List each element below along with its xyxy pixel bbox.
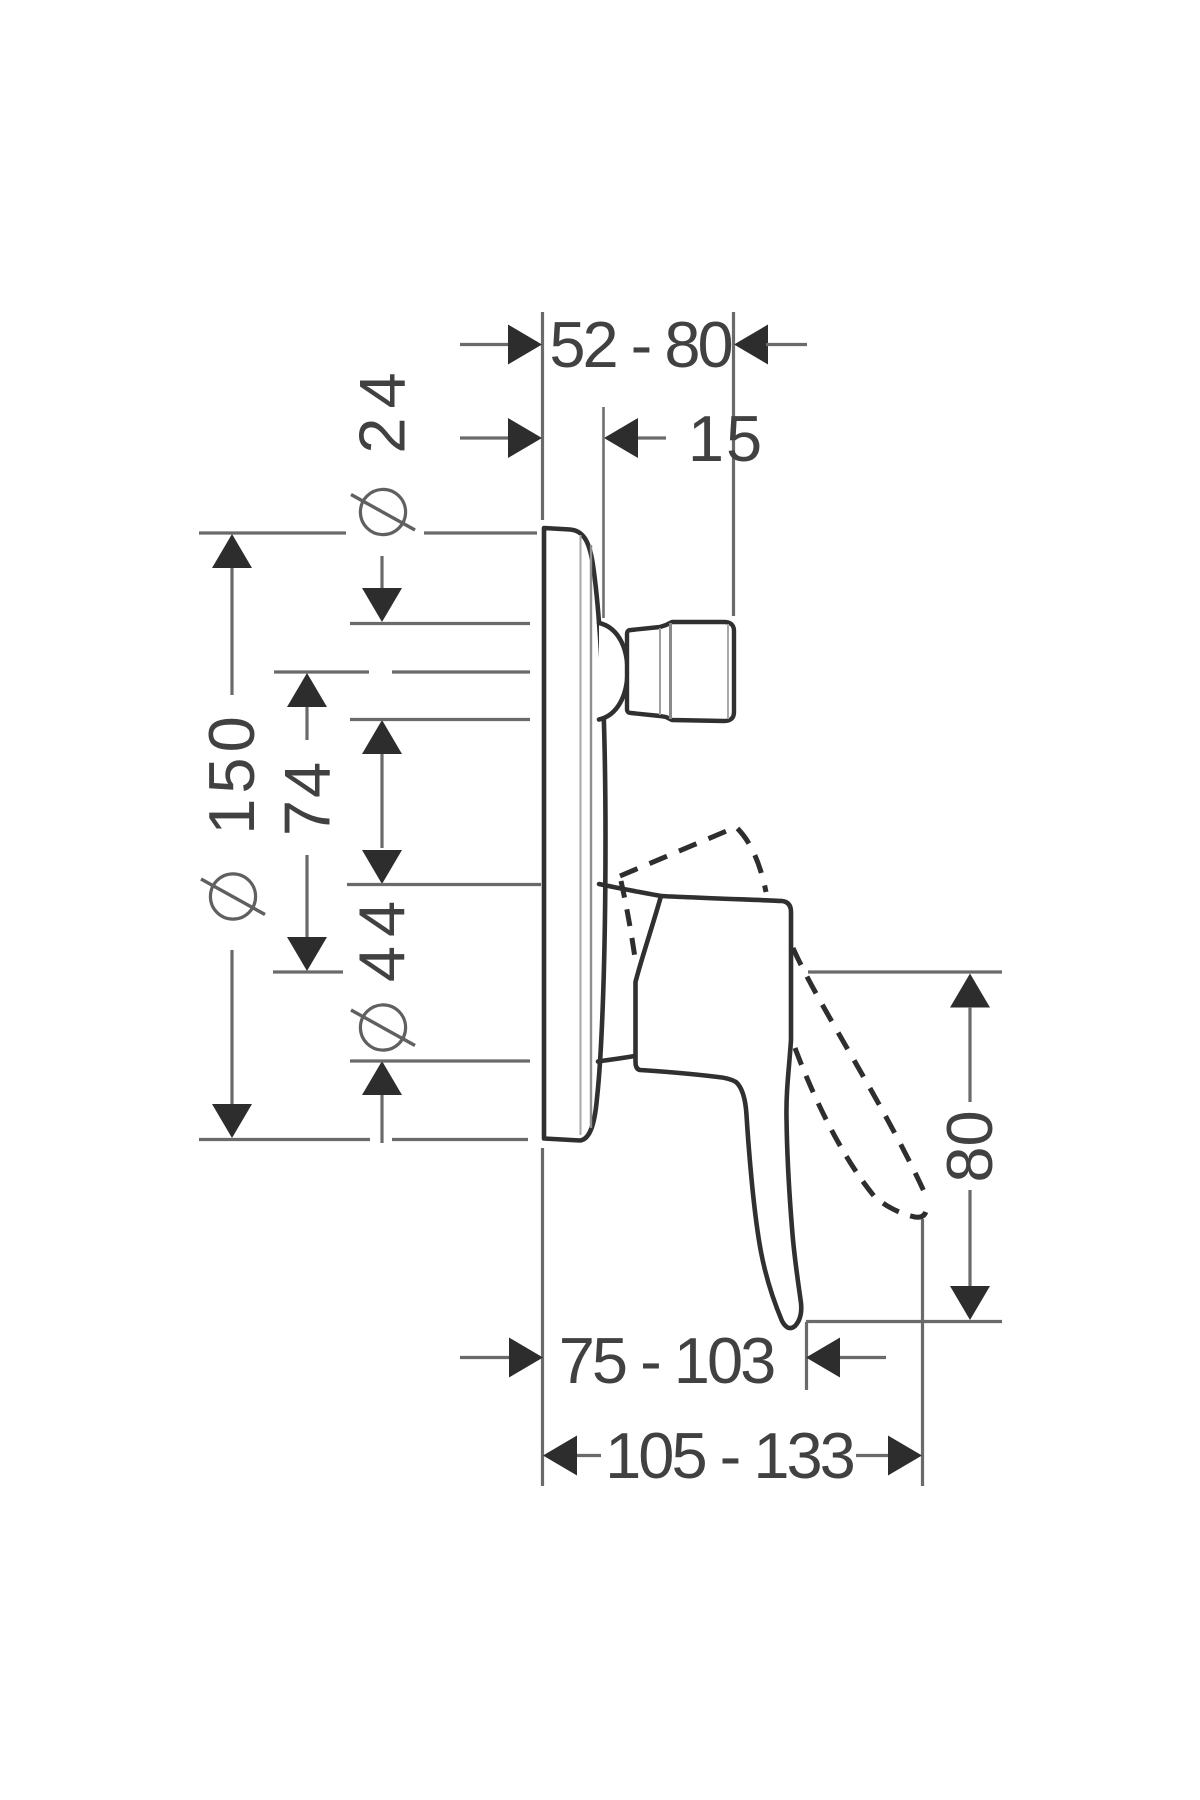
knob face line B [669, 623, 672, 719]
dimension d150 lower tail [230, 950, 233, 1105]
extension line knob centre left part [274, 670, 369, 673]
extension line solid handle tip [805, 1322, 808, 1390]
diameter symbol for 44 [351, 1005, 415, 1050]
svg-text:80: 80 [933, 1110, 1006, 1182]
dimension 80 upper tail [968, 1007, 971, 1102]
lever handle sleeve bottom edge [598, 1056, 635, 1062]
dimension d24 upper tail and arrow [380, 556, 383, 588]
arrow 52-80 right [734, 325, 768, 365]
dimension d150 top extension right part [424, 531, 537, 534]
arrow 52-80 left [508, 325, 542, 365]
dashed lever raised, inner sweep and tip hairpin [795, 1048, 927, 1217]
extension line sleeve top (d44) [347, 883, 541, 886]
arrow 80 top (up) [950, 974, 990, 1008]
extension line knob bottom [350, 718, 530, 721]
arrow d44 top (down) [362, 850, 402, 884]
dimension 80 lower tail [968, 1190, 971, 1287]
dashed lever raised, outer sweep to tip [793, 948, 927, 1198]
dimension line 75-103 right tail [840, 1356, 886, 1359]
dimension line 105-133 left segment [577, 1454, 601, 1457]
extension line dashed handle tip [921, 1219, 924, 1486]
extension line handle centre tick [273, 970, 343, 973]
arrow d24 bottom (up) [362, 720, 402, 754]
dimension line 15 left tail [460, 436, 508, 439]
dimension d44 lower tail [380, 1095, 383, 1143]
extension line knob top [350, 622, 530, 625]
arrow d24 top (down) [362, 588, 402, 622]
dashed lever in raised position, upper edge [620, 827, 766, 892]
extension line wall lower [541, 1148, 544, 1486]
svg-text:74: 74 [270, 760, 343, 836]
diameter symbol for 150 [201, 874, 265, 919]
dimension line 52-80 left tail [460, 343, 512, 346]
lever handle body with grip blade [636, 896, 802, 1328]
arrow 15 left [508, 418, 542, 458]
dimension d150 bottom extension right part [392, 1138, 528, 1141]
svg-text:44: 44 [345, 892, 418, 982]
arrow 105-133 right (points right) [888, 1436, 922, 1476]
dimension 74 lower tail [305, 855, 308, 937]
arrow d44 bottom (up) [362, 1061, 402, 1095]
arrow d150 bottom (down) [212, 1104, 252, 1138]
extension line sleeve bottom (d44) [350, 1059, 530, 1062]
escutcheon plate (round cover flange, side view) [544, 528, 606, 1141]
extension line knob centre right part [392, 670, 530, 673]
svg-text:24: 24 [345, 363, 418, 453]
diverter knob body [627, 622, 734, 721]
svg-text:52 - 80: 52 - 80 [549, 308, 731, 381]
dimension line 15 right tail [638, 436, 666, 439]
dimension d150 top extension left part [199, 531, 346, 534]
diameter symbol for 24 [351, 489, 415, 534]
extension line 80 top [808, 970, 1002, 973]
arrow d150 top (up) [212, 534, 252, 568]
escutcheon face highlight line 2 [590, 545, 592, 1128]
diverter knob bulge [599, 623, 628, 720]
arrow 105-133 left (points left) [543, 1436, 577, 1476]
dimension d150 upper tail [230, 568, 233, 695]
escutcheon face highlight line 1 [580, 535, 582, 1135]
arrow 75-103 right [806, 1338, 840, 1378]
dimension 74 bottom arrow (down) [287, 937, 327, 971]
dimension 74 top arrow (up) [287, 673, 327, 707]
extension line 15 right [602, 407, 605, 618]
knob face line A [659, 628, 661, 715]
dashed lever raised, inner edge stub [621, 881, 635, 958]
dimension d24-d44 shared tail [380, 754, 383, 848]
lever handle sleeve top edge [599, 884, 661, 896]
dimension 52-80 right extension line [732, 312, 735, 616]
arrow 15 right [604, 418, 638, 458]
svg-text:15: 15 [688, 402, 764, 475]
dimension d150 bottom extension left part [199, 1138, 370, 1141]
dimension line 52-80 right tail [766, 343, 807, 346]
arrow 80 bottom (down) [950, 1286, 990, 1320]
dimension line 75-103 left tail [460, 1356, 509, 1359]
dimension 74 upper tail [305, 707, 308, 740]
dimension line 105-133 right segment [856, 1454, 888, 1457]
arrow 75-103 left [509, 1338, 543, 1378]
svg-text:75 - 103: 75 - 103 [559, 1324, 774, 1397]
knob face line C [727, 624, 729, 719]
dimension 52-80 left extension line (wall plane) [541, 312, 544, 520]
svg-text:105 - 133: 105 - 133 [605, 1419, 854, 1492]
svg-text:150: 150 [195, 711, 268, 834]
extension line 80 bottom [806, 1320, 1002, 1323]
